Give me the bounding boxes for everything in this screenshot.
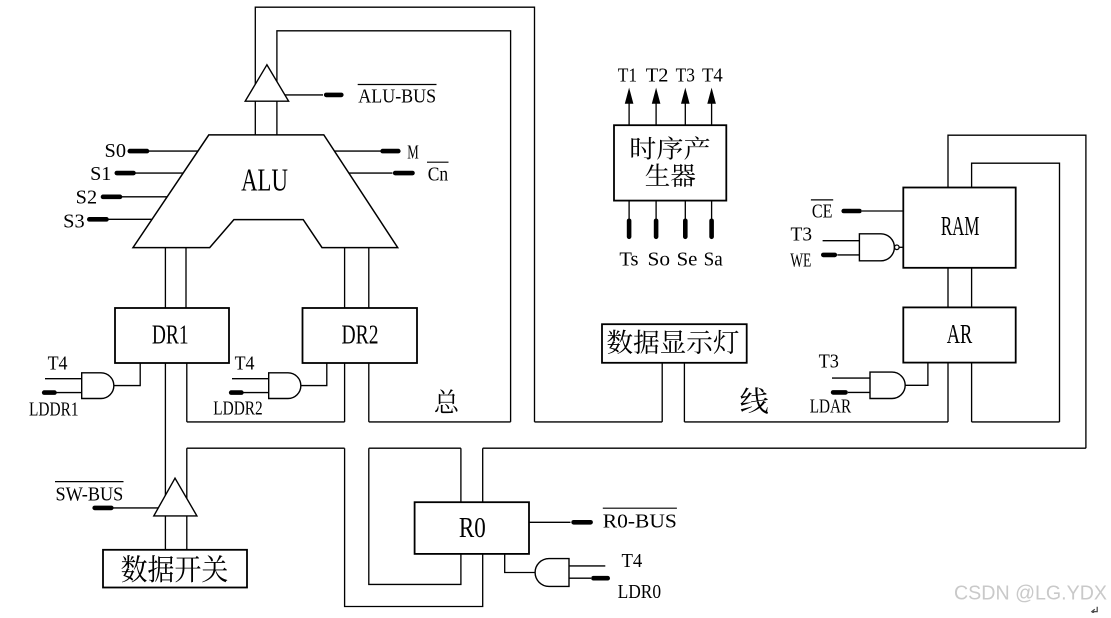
pin Cn (395, 171, 412, 176)
pin S1 (117, 171, 134, 176)
wire S3 (107, 218, 152, 220)
wire S0 (148, 150, 199, 152)
svg-text:DR1: DR1 (152, 319, 189, 349)
wire bus top line segment 4 (684, 421, 948, 423)
wire DR2 left leg to bus top (344, 363, 346, 422)
wire display-light left leg (661, 363, 663, 422)
return mark (1092, 607, 1097, 614)
svg-text:LDR0: LDR0 (618, 581, 662, 603)
label 线 (bus) (740, 387, 768, 413)
overline CE (811, 199, 833, 201)
svg-text:SW-BUS: SW-BUS (56, 484, 124, 506)
wire inner ALU-to-bus loop (top) (277, 31, 511, 422)
wire LDAR input (848, 391, 870, 393)
arrowhead T1 (625, 88, 634, 104)
wire T4 input to DR1 gate (45, 378, 82, 380)
box data switch (103, 550, 247, 588)
wire ALU to DR2 right leg (368, 248, 370, 308)
svg-text:T4: T4 (48, 353, 68, 375)
box data display light (602, 324, 747, 363)
pin Ts (627, 221, 632, 237)
NAND bubble (895, 245, 900, 250)
svg-text:WE: WE (790, 249, 811, 271)
wire S1 (134, 172, 184, 174)
wire RAM inner feedback loop (972, 163, 1060, 422)
svg-text:R0: R0 (459, 513, 486, 544)
box timing generator (614, 125, 726, 200)
wire RAM to AR right leg (971, 268, 973, 308)
svg-text:T4: T4 (235, 353, 255, 375)
svg-text:R0-BUS: R0-BUS (603, 511, 677, 533)
wire WE input to NAND (837, 254, 859, 256)
svg-text:S3: S3 (63, 211, 84, 233)
wire AR left leg to bus (947, 363, 949, 422)
svg-text:AR: AR (947, 319, 973, 349)
wire LDDR2 input (243, 392, 269, 394)
tri-state buffer SW-BUS triangle (154, 478, 197, 516)
wire T1 output (628, 100, 630, 125)
wire R0 inner loop (369, 448, 461, 584)
svg-text:Sa: Sa (704, 249, 723, 271)
pin SW-BUS (95, 506, 112, 511)
svg-text:Se: Se (677, 249, 698, 271)
wire LDR0 input (569, 577, 591, 579)
wire ALU to DR2 left leg (344, 248, 346, 308)
arrowhead T3 (681, 88, 690, 104)
svg-text:LDDR2: LDDR2 (213, 398, 262, 420)
svg-text:Ts: Ts (619, 249, 638, 271)
overline ALU-BUS (358, 84, 437, 86)
overline Cn (427, 161, 449, 163)
wire T4 input to R0 gate (569, 565, 605, 567)
label 时序产 (631, 136, 709, 159)
wire ALU to DR1 left leg (164, 248, 166, 308)
wire T4 input to DR2 gate (232, 378, 269, 380)
wire Cn (349, 172, 393, 174)
svg-text:S0: S0 (105, 140, 127, 162)
pin LDDR2 (231, 390, 241, 395)
NAND gate RAM write (859, 234, 894, 261)
AND gate DR1 load (82, 373, 114, 399)
pin LDAR (833, 390, 846, 395)
wire display-light right leg (683, 363, 685, 422)
wire bus bottom line segment 3 (483, 447, 1086, 449)
pin S0 (130, 149, 147, 154)
arrowhead T4 (707, 88, 716, 104)
AND gate DR2 load (269, 373, 301, 399)
wire bus bottom to data-switch right leg (186, 448, 188, 550)
wire DR1 right leg to bus top (186, 363, 188, 422)
wire Sa input (711, 201, 713, 238)
svg-text:So: So (648, 249, 671, 271)
wire bus bottom line segment 2 (369, 447, 461, 449)
wire T3 input to AR gate (832, 377, 870, 379)
wire Ts input (628, 201, 630, 238)
wire NAND output to RAM (899, 246, 903, 248)
pin WE (823, 253, 835, 258)
wire RAM to AR left leg (947, 268, 949, 308)
wire outer ALU-to-bus loop (top) (255, 7, 534, 422)
wire RAM outer feedback loop (948, 135, 1086, 448)
svg-text:T3: T3 (676, 64, 695, 86)
wire R0 gate output (505, 554, 535, 573)
svg-text:T4: T4 (702, 64, 723, 86)
pin ALU-BUS (326, 93, 341, 98)
svg-text:ALU-BUS: ALU-BUS (358, 85, 436, 107)
svg-text:Cn: Cn (428, 164, 448, 186)
wire bus top line segment 1 (187, 421, 345, 423)
pin S2 (103, 195, 120, 200)
label 数据开关 (122, 555, 228, 582)
wire DR2 gate output (301, 363, 327, 386)
svg-text:S1: S1 (90, 163, 111, 185)
svg-text:M: M (407, 142, 419, 164)
AND gate AR load (870, 372, 905, 398)
wire bus bottom line segment 1 (187, 447, 345, 449)
wire bus top line segment 2 (369, 421, 511, 423)
wire LDDR1 input (56, 392, 82, 394)
wire SW-BUS enable line (114, 507, 159, 509)
wire Se input (684, 201, 686, 238)
svg-text:LDAR: LDAR (810, 395, 852, 417)
wire CE to RAM (862, 210, 904, 212)
label 总 (bus) (435, 389, 457, 413)
label 数据显示灯 (607, 330, 738, 354)
svg-text:T3: T3 (819, 350, 839, 372)
label 生器 (646, 163, 696, 186)
pin LDDR1 (44, 390, 54, 395)
pin Se (683, 221, 688, 237)
wire T4 output (711, 100, 713, 125)
wire R0-BUS line (529, 521, 571, 523)
wire R0 outer loop (345, 448, 483, 606)
pin Sa (709, 221, 714, 237)
wire bus top line segment 3 (535, 421, 663, 423)
register DR1 (115, 308, 229, 363)
wire DR1 to data-switch line (through SW buffer) (164, 363, 166, 550)
wire DR1 gate output (114, 363, 140, 386)
svg-text:ALU: ALU (241, 161, 288, 197)
ALU U1 trapezoid body (133, 135, 398, 248)
svg-text:T2: T2 (646, 64, 669, 86)
svg-text:CSDN @LG.YDX: CSDN @LG.YDX (954, 582, 1107, 605)
svg-text:CE: CE (812, 200, 833, 222)
wire AR gate output (905, 363, 928, 386)
svg-text:LDDR1: LDDR1 (29, 398, 79, 420)
pin LDR0 (593, 576, 607, 581)
wire ALU-BUS enable line (285, 94, 323, 96)
svg-text:RAM: RAM (941, 211, 980, 241)
wire bus top line segment 5 (972, 421, 1060, 423)
wire So input (655, 201, 657, 238)
svg-text:T3: T3 (791, 224, 813, 246)
svg-text:T4: T4 (622, 550, 643, 572)
wire T3 input to NAND (823, 240, 860, 242)
overline SW-BUS (55, 481, 124, 483)
pin M (383, 149, 399, 154)
wire T2 output (655, 100, 657, 125)
pin R0-BUS (574, 520, 591, 525)
memory RAM (903, 188, 1015, 268)
wire T3 output (684, 100, 686, 125)
AND gate R0 load (mirrored) (535, 559, 569, 587)
tri-state buffer ALU-BUS triangle (245, 65, 288, 101)
register DR2 (303, 308, 418, 363)
pin So (654, 221, 659, 237)
svg-text:DR2: DR2 (342, 319, 379, 349)
register R0 (415, 502, 529, 554)
wire DR2 right leg to bus top (368, 363, 370, 422)
wire S2 (121, 196, 168, 198)
pin CE (844, 209, 860, 214)
svg-text:T1: T1 (618, 64, 637, 86)
register AR (903, 307, 1015, 362)
svg-text:S2: S2 (76, 187, 97, 209)
pin S3 (89, 217, 106, 222)
overline R0-BUS (603, 507, 677, 509)
wire ALU to DR1 right leg (185, 248, 187, 308)
wire AR right leg to bus (971, 363, 973, 422)
arrowhead T2 (652, 88, 661, 104)
wire M (334, 150, 380, 152)
